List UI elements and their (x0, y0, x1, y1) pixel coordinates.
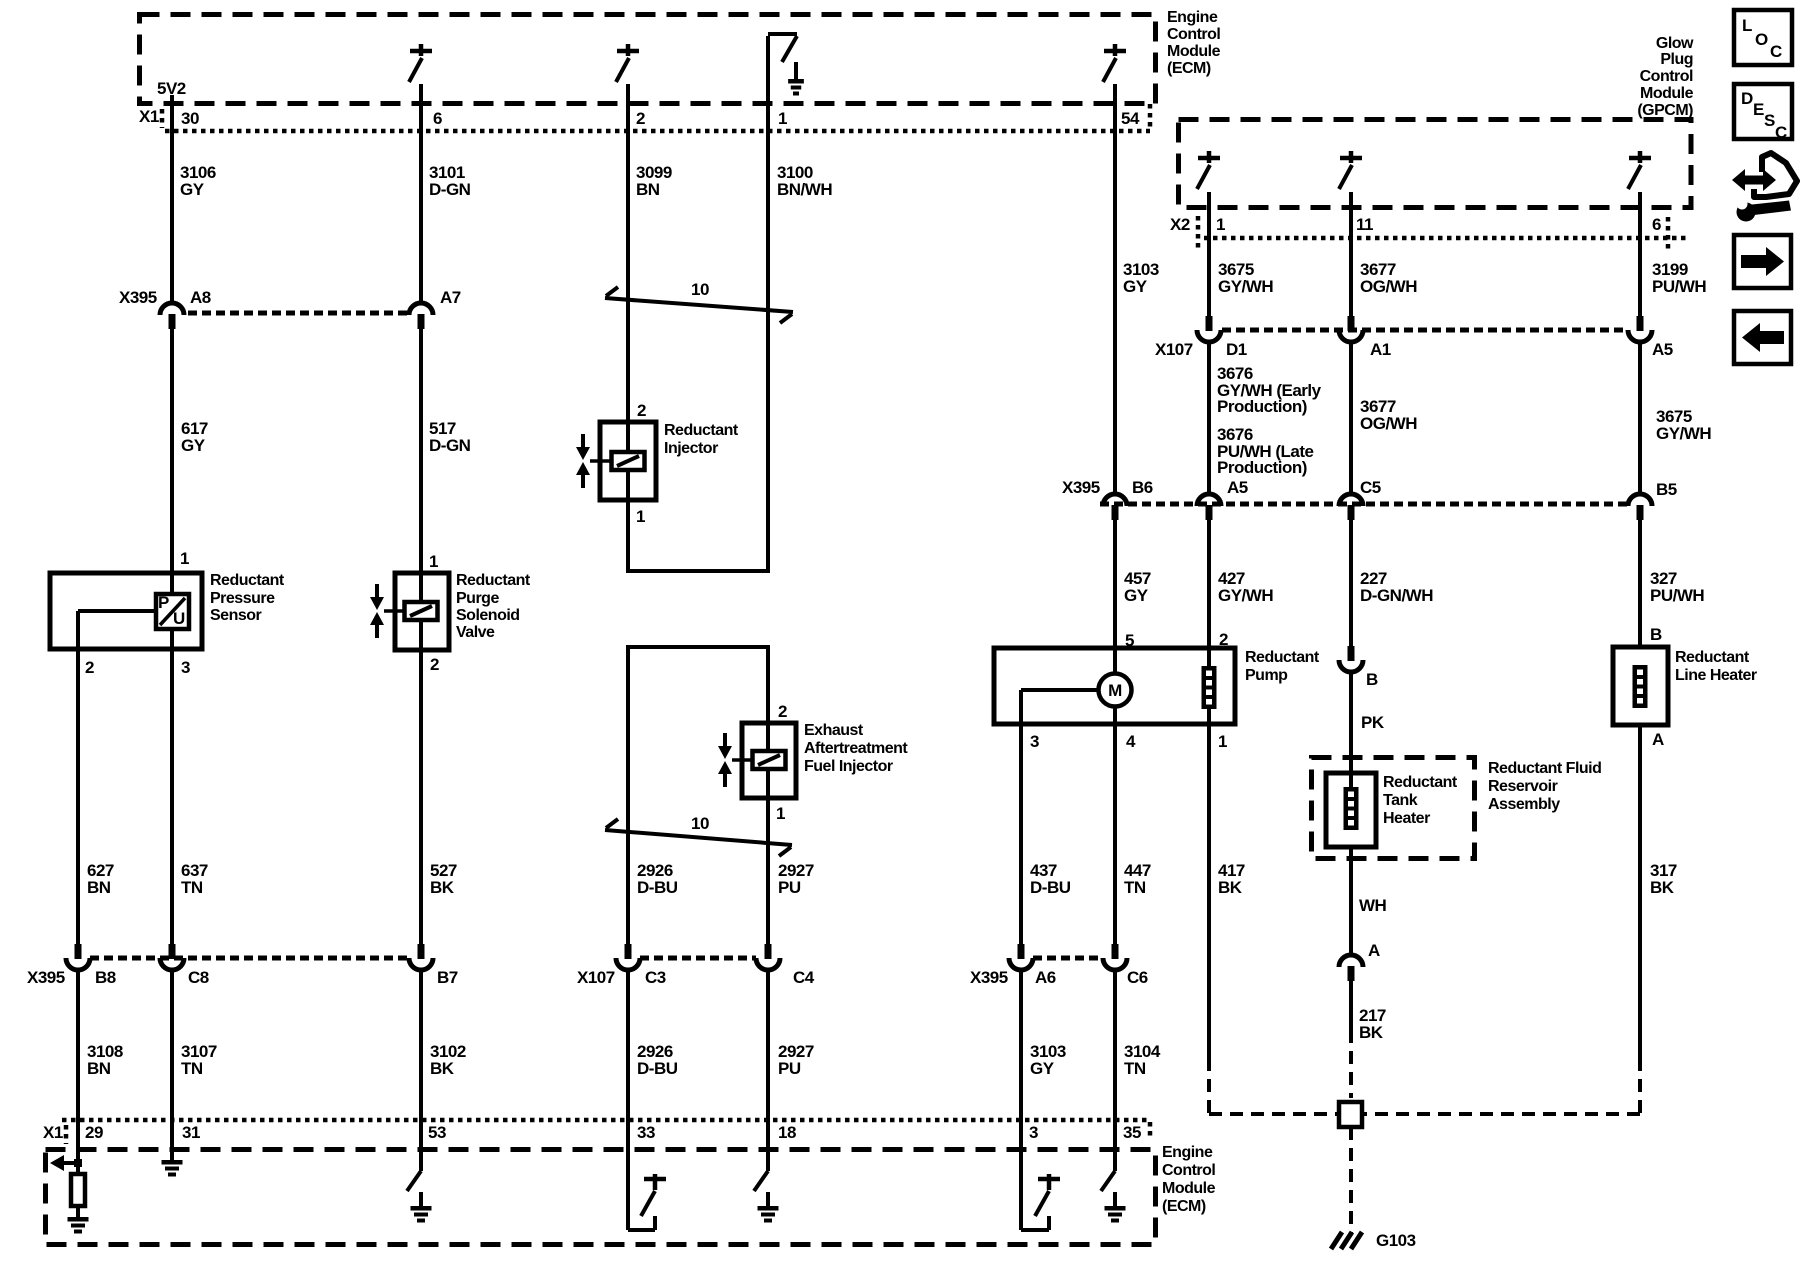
wire 3677 OG/WH to X395 C5 (1349, 342, 1353, 494)
P/U transducer symbol (156, 594, 189, 629)
svg-text:33: 33 (637, 1123, 655, 1142)
wire 227 D-GN/WH to ring B (1349, 520, 1353, 646)
wire 617 GY to sensor pin 1 (170, 328, 174, 594)
wire 417 BK dashed to splice (1209, 1112, 1338, 1116)
valve symbol purge valve (375, 584, 379, 598)
svg-text:(ECM): (ECM) (1162, 1198, 1206, 1215)
connector X2 dotted line (1204, 236, 1688, 241)
svg-text:X2: X2 (1170, 215, 1190, 234)
wire 3108 BN (76, 970, 80, 1163)
svg-text:Engine: Engine (1167, 9, 1218, 26)
svg-text:TN: TN (181, 1059, 203, 1078)
svg-text:Reductant: Reductant (456, 572, 531, 589)
svg-text:29: 29 (85, 1123, 103, 1142)
svg-text:10: 10 (691, 280, 709, 299)
svg-text:D-BU: D-BU (1030, 878, 1071, 897)
svg-text:1: 1 (778, 109, 787, 128)
svg-text:A1: A1 (1370, 340, 1391, 359)
component: Reductant Tank Heater (1326, 773, 1376, 847)
wire below exhaust injector (766, 798, 770, 944)
svg-text:(ECM): (ECM) (1167, 60, 1211, 77)
icon box DESC (1734, 84, 1792, 139)
svg-text:D-BU: D-BU (637, 1059, 678, 1078)
component: Reductant Line Heater (1613, 647, 1668, 725)
svg-text:A5: A5 (1227, 478, 1248, 497)
wire 2927 PU right (766, 647, 770, 723)
svg-text:Reservoir: Reservoir (1488, 778, 1558, 795)
valve symbol exhaust injector (723, 733, 727, 747)
wire 317 BK dashed to splice (1363, 1112, 1640, 1116)
svg-text:1: 1 (776, 804, 785, 823)
svg-text:TN: TN (1124, 878, 1146, 897)
wire 447 TN from pump pin 4 (1113, 724, 1117, 944)
svg-text:Reductant: Reductant (1245, 649, 1320, 666)
connector X395 B5 (1628, 494, 1652, 506)
svg-text:D-GN/WH: D-GN/WH (1360, 586, 1433, 605)
driver in ECM for pin 1 with ground (768, 32, 797, 36)
svg-text:Reductant: Reductant (1383, 774, 1458, 791)
wire 627 BN from sensor pin 2 (76, 649, 80, 944)
motor symbol M (1113, 648, 1117, 673)
svg-text:1: 1 (180, 549, 189, 568)
svg-text:B5: B5 (1656, 480, 1677, 499)
wire 3199 PU/WH from GPCM pin 6 (1638, 192, 1642, 316)
wire 3675 GY/WH from GPCM pin 1 (1207, 192, 1211, 316)
wire 3102 BK (419, 970, 423, 1171)
blade and ground pin 18 (754, 1171, 768, 1191)
svg-text:2: 2 (637, 401, 646, 420)
svg-text:1: 1 (429, 552, 438, 571)
svg-text:D-GN: D-GN (429, 436, 471, 455)
connector X107 C3 (625, 944, 632, 959)
wire 217 BK below connector A (1349, 981, 1353, 1030)
twisted pair marker 10 lower (605, 830, 792, 845)
connector X395 C8 (169, 944, 176, 959)
svg-text:BN: BN (87, 878, 111, 897)
svg-text:Control: Control (1162, 1162, 1215, 1179)
driver in ECM for pin 2 (617, 49, 639, 54)
module box: Engine Control Module ECM bottom (46, 1150, 1156, 1245)
wire through purge valve box (419, 620, 423, 650)
connector X395 B7 (418, 944, 425, 959)
wire through exhaust injector box (766, 723, 770, 751)
svg-text:2: 2 (778, 702, 787, 721)
svg-text:GY/WH: GY/WH (1218, 277, 1273, 296)
svg-text:3: 3 (1030, 732, 1039, 751)
wire 3101 D-GN from ECM pin 6 (419, 84, 423, 303)
svg-text:Reductant: Reductant (1675, 649, 1750, 666)
wire WH below tank heater (1349, 847, 1353, 955)
svg-text:10: 10 (691, 814, 709, 833)
ground inside ECM pin 1 (794, 62, 798, 79)
svg-text:M: M (1108, 681, 1122, 700)
valve symbol injector (581, 434, 585, 448)
svg-text:2: 2 (636, 109, 645, 128)
wire 2927 PU lower (766, 970, 770, 1171)
wire 427 GY/WH to pump pin 2 (1207, 520, 1211, 648)
wire 457 GY to pump pin 5 (1113, 520, 1117, 648)
svg-text:Exhaust: Exhaust (804, 722, 864, 739)
svg-text:S: S (1764, 111, 1775, 130)
assembly box: Reductant Fluid Reservoir Assembly (1312, 758, 1475, 859)
driver in ECM for pin 54 (1104, 49, 1126, 54)
svg-text:35: 35 (1123, 1123, 1141, 1142)
svg-text:30: 30 (181, 109, 199, 128)
svg-text:PU/WH: PU/WH (1650, 586, 1704, 605)
svg-text:3: 3 (181, 658, 190, 677)
svg-text:BK: BK (1650, 878, 1675, 897)
component: Exhaust Aftertreatment Fuel Injector (742, 723, 796, 798)
svg-text:Glow: Glow (1656, 35, 1694, 52)
dashed line X107 row (1222, 328, 1626, 333)
svg-text:D: D (1741, 89, 1753, 108)
svg-text:OG/WH: OG/WH (1360, 277, 1417, 296)
ground inside ECM pin 31 (162, 1160, 183, 1165)
connector X107 D1 (1206, 316, 1213, 331)
svg-text:X107: X107 (577, 968, 615, 987)
wire 3107 TN (170, 970, 174, 1160)
svg-text:Production): Production) (1217, 397, 1307, 416)
svg-text:53: 53 (428, 1123, 446, 1142)
connector X107 A1 (1348, 316, 1355, 331)
wire 3103 GY lower (1019, 970, 1023, 1230)
wire 437 D-BU from pump pin 3 (1019, 724, 1023, 944)
wire 2926 D-BU left (626, 647, 630, 944)
svg-text:54: 54 (1121, 109, 1140, 128)
wire 417 BK from pump pin 1 (1207, 724, 1211, 1058)
svg-text:Plug: Plug (1660, 51, 1693, 68)
svg-text:GY: GY (1123, 277, 1148, 296)
dashed line X395 mid row (1100, 502, 1627, 507)
svg-text:B7: B7 (437, 968, 458, 987)
svg-text:C3: C3 (645, 968, 666, 987)
heater element tank heater (1344, 787, 1359, 830)
svg-text:A5: A5 (1652, 340, 1673, 359)
module box: Engine Control Module ECM top (140, 15, 1156, 104)
svg-text:Module: Module (1162, 1180, 1216, 1197)
driver inside ECM pin 33 (628, 1228, 655, 1232)
heater element line heater (1633, 665, 1648, 708)
wire 327 PU/WH to line heater (1638, 520, 1642, 647)
svg-text:X1: X1 (139, 107, 159, 126)
svg-text:A: A (1652, 730, 1664, 749)
connector X395 B6 (1103, 494, 1127, 506)
wire through injector box (626, 422, 630, 452)
wire loop bottom pair1 (626, 569, 770, 573)
svg-text:BK: BK (1218, 878, 1243, 897)
dashed line X107 bottom row (640, 956, 756, 961)
wire 2926 D-BU lower (626, 970, 630, 1230)
svg-text:A6: A6 (1035, 968, 1056, 987)
svg-text:GY/WH: GY/WH (1218, 586, 1273, 605)
splice junction (1339, 1102, 1362, 1127)
svg-text:X1: X1 (43, 1123, 63, 1142)
svg-text:Pump: Pump (1245, 667, 1288, 684)
svg-text:Fuel Injector: Fuel Injector (804, 758, 893, 775)
wire 3099 BN from ECM pin 2 (626, 84, 630, 422)
svg-text:D1: D1 (1226, 340, 1247, 359)
svg-text:TN: TN (181, 878, 203, 897)
ground inside ECM pin 29 (76, 1206, 80, 1217)
dashed line X395 top row (188, 311, 407, 316)
wire 417 BK dashed down (1207, 1058, 1211, 1114)
driver in GPCM pin 1 (1198, 156, 1220, 161)
svg-text:Reductant: Reductant (664, 422, 739, 439)
component box: Reductant Pump (994, 648, 1235, 724)
svg-text:1: 1 (1218, 732, 1227, 751)
svg-text:Purge: Purge (456, 590, 499, 607)
connector X107 C4 (765, 944, 772, 959)
svg-text:Aftertreatment: Aftertreatment (804, 740, 908, 757)
wire 3100 BN/WH from ECM pin 1 (766, 36, 770, 571)
svg-text:Assembly: Assembly (1488, 796, 1560, 813)
svg-text:3: 3 (1029, 1123, 1038, 1142)
svg-text:PU: PU (778, 1059, 801, 1078)
solenoid coil injector (612, 452, 645, 470)
driver in GPCM pin 11 (1340, 156, 1362, 161)
svg-text:Reductant: Reductant (210, 572, 285, 589)
connector X395 A6 (1018, 944, 1025, 959)
svg-text:Reductant Fluid: Reductant Fluid (1488, 760, 1601, 777)
inline connector B (1348, 646, 1355, 661)
svg-text:BN: BN (636, 180, 660, 199)
driver in ECM for pin 6 (410, 49, 432, 54)
wire sensor through (170, 629, 174, 944)
connector X395 C6 (1112, 944, 1119, 959)
svg-text:PU: PU (778, 878, 801, 897)
wire loop top pair2 (626, 645, 770, 649)
dashed line X395 A6-C6 (1033, 956, 1103, 961)
connector X395 A7 (409, 303, 433, 315)
dashed line X395 bottom row (90, 956, 409, 961)
svg-text:Sensor: Sensor (210, 607, 262, 624)
svg-text:C5: C5 (1360, 478, 1381, 497)
svg-text:X395: X395 (1062, 478, 1100, 497)
wire injector pin1 down (626, 500, 630, 571)
module box: Glow Plug Control Module GPCM (1179, 120, 1692, 208)
svg-text:A: A (1368, 941, 1380, 960)
svg-text:D-BU: D-BU (637, 878, 678, 897)
svg-text:O: O (1755, 30, 1768, 49)
connector X395 B8 (75, 944, 82, 959)
svg-text:BK: BK (430, 878, 455, 897)
svg-text:G103: G103 (1376, 1231, 1416, 1250)
svg-text:BK: BK (1359, 1023, 1384, 1042)
icon box arrow right (1734, 235, 1791, 288)
driver in GPCM pin 6 (1629, 156, 1651, 161)
svg-text:X395: X395 (970, 968, 1008, 987)
svg-text:X395: X395 (27, 968, 65, 987)
wire 317 BK below line heater (1638, 725, 1642, 1058)
wire motor to pump pin 3 (1021, 688, 1098, 692)
component: Reductant Purge Solenoid Valve (395, 573, 449, 650)
svg-text:B6: B6 (1132, 478, 1153, 497)
svg-text:6: 6 (433, 109, 442, 128)
inline connector A (1339, 955, 1363, 967)
wire PK to tank heater (1349, 672, 1353, 787)
connector X395 C5 (1339, 494, 1363, 506)
twisted pair marker 10 (605, 298, 793, 312)
svg-text:L: L (1742, 16, 1752, 35)
svg-text:GY: GY (1030, 1059, 1055, 1078)
svg-text:WH: WH (1359, 896, 1387, 915)
wire 3677 OG/WH from GPCM pin 11 (1349, 192, 1353, 316)
wire 3103 GY from ECM pin 54 (1113, 84, 1117, 494)
connector X395 A5 (1197, 494, 1221, 506)
svg-text:P: P (158, 593, 169, 612)
svg-text:Pressure: Pressure (210, 590, 275, 607)
svg-text:U: U (173, 609, 185, 628)
svg-text:(GPCM): (GPCM) (1637, 102, 1693, 119)
svg-text:Tank: Tank (1383, 792, 1418, 809)
svg-text:BK: BK (430, 1059, 455, 1078)
icon box LOC (1734, 10, 1792, 65)
svg-text:Control: Control (1167, 26, 1220, 43)
svg-text:GY/WH: GY/WH (1656, 424, 1711, 443)
svg-text:Production): Production) (1217, 458, 1307, 477)
svg-text:6: 6 (1652, 215, 1661, 234)
svg-text:E: E (1753, 100, 1764, 119)
svg-text:BN/WH: BN/WH (777, 180, 832, 199)
svg-text:Heater: Heater (1383, 810, 1430, 827)
svg-text:C6: C6 (1127, 968, 1148, 987)
resistor inside ECM pin 29 (76, 1163, 80, 1174)
component: Reductant Pressure Sensor (50, 573, 202, 649)
driver inside ECM pin 3 (1021, 1228, 1049, 1232)
wire 3104 TN lower (1113, 970, 1117, 1171)
svg-text:GY: GY (1124, 586, 1149, 605)
svg-text:C: C (1775, 123, 1787, 142)
solenoid coil purge valve (405, 602, 438, 620)
svg-text:2: 2 (430, 655, 439, 674)
svg-text:B: B (1366, 670, 1378, 689)
wire 217 BK dashed to splice (1349, 1030, 1353, 1098)
connector X107 A5 (1637, 316, 1644, 331)
svg-text:C4: C4 (793, 968, 815, 987)
icon diagnostic arrows and wrench (1732, 169, 1776, 191)
svg-text:A8: A8 (190, 288, 211, 307)
svg-text:TN: TN (1124, 1059, 1146, 1078)
svg-text:X107: X107 (1155, 340, 1193, 359)
svg-text:A7: A7 (440, 288, 461, 307)
blade and ground pin 53 (407, 1171, 421, 1191)
icon box arrow left (1734, 311, 1791, 364)
svg-text:2: 2 (85, 658, 94, 677)
svg-text:Solenoid: Solenoid (456, 607, 520, 624)
svg-text:Injector: Injector (664, 440, 718, 457)
svg-text:4: 4 (1126, 732, 1136, 751)
junction dot pin 29 (74, 1159, 82, 1167)
wire dashed splice to ground (1349, 1127, 1353, 1233)
arrow input pin 29 (57, 1161, 78, 1165)
svg-text:1: 1 (1216, 215, 1225, 234)
component: Reductant Injector (600, 422, 656, 500)
svg-text:B8: B8 (95, 968, 116, 987)
svg-text:OG/WH: OG/WH (1360, 414, 1417, 433)
connector X1 bottom dotted line (62, 1118, 1150, 1123)
svg-text:1: 1 (636, 507, 645, 526)
wire sensor internal branch (78, 609, 156, 613)
svg-text:Valve: Valve (456, 624, 495, 641)
wire 517 D-GN to purge valve (419, 328, 423, 603)
connector X1 top dotted line (165, 129, 1150, 134)
svg-text:Control: Control (1640, 68, 1693, 85)
wire 3675 GY/WH to X395 B5 (1638, 342, 1642, 494)
svg-text:GY: GY (180, 180, 205, 199)
ground G103 (1331, 1232, 1362, 1249)
svg-text:Module: Module (1640, 85, 1694, 102)
svg-text:31: 31 (182, 1123, 200, 1142)
svg-text:C: C (1770, 42, 1782, 61)
svg-text:C8: C8 (188, 968, 209, 987)
svg-text:Line Heater: Line Heater (1675, 667, 1757, 684)
wire 317 BK dashed down (1638, 1058, 1642, 1114)
svg-text:Module: Module (1167, 43, 1221, 60)
svg-text:PK: PK (1361, 713, 1385, 732)
heater element inside pump (1207, 648, 1211, 666)
wire 3676 to X395 A5 (1207, 342, 1211, 494)
wire 3106 GY from ECM pin 30 (170, 95, 174, 303)
connector X395 A8 (160, 303, 184, 315)
svg-text:B: B (1650, 625, 1662, 644)
blade and ground pin 35 (1101, 1171, 1115, 1191)
svg-text:BN: BN (87, 1059, 111, 1078)
svg-text:PU/WH: PU/WH (1652, 277, 1706, 296)
svg-text:GY: GY (181, 436, 206, 455)
svg-text:X395: X395 (119, 288, 157, 307)
solenoid coil exhaust injector (753, 751, 786, 769)
svg-text:Engine: Engine (1162, 1144, 1213, 1161)
svg-text:18: 18 (778, 1123, 796, 1142)
svg-text:D-GN: D-GN (429, 180, 471, 199)
wire 527 BK below purge valve (419, 650, 423, 944)
svg-text:11: 11 (1356, 215, 1373, 234)
